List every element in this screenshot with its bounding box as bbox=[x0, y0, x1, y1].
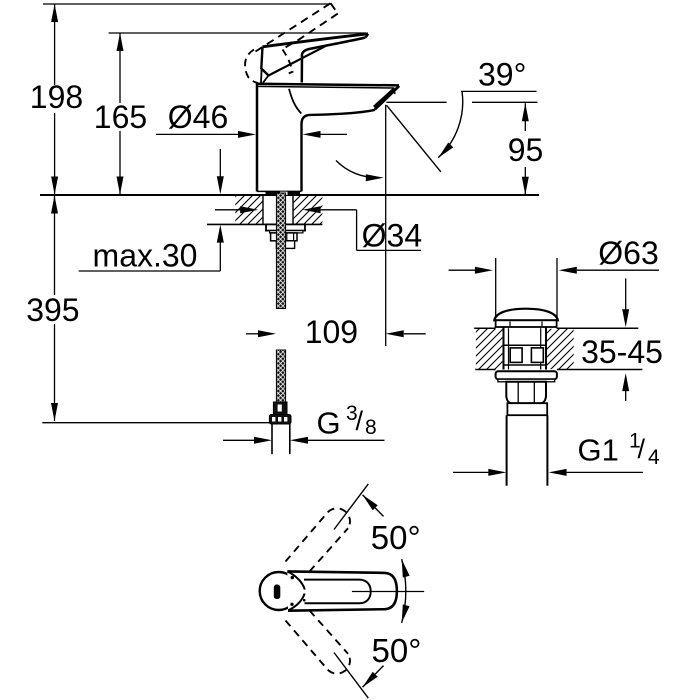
drain deck top line bbox=[474, 327, 638, 329]
top view: lever inner capsule bbox=[304, 580, 371, 604]
hose nipple nut bbox=[269, 415, 291, 425]
top view: dashed handle rotated up bbox=[286, 508, 350, 571]
counter deck hatch left bbox=[235, 196, 263, 224]
handle raised dashed top edge bbox=[256, 3, 331, 51]
dimension 95 bbox=[508, 103, 544, 195]
dimension Ø46 bbox=[156, 99, 347, 138]
svg-text:Ø34: Ø34 bbox=[362, 218, 422, 254]
faucet body left edge bbox=[256, 84, 259, 192]
threaded shank rod upper bbox=[276, 193, 285, 309]
counter deck bottom line bbox=[207, 223, 322, 225]
handle lower facet line bbox=[269, 45, 328, 75]
dimension G 3/8 bbox=[223, 402, 385, 444]
handle cap outline bbox=[261, 47, 268, 76]
drain: cap extension line left bbox=[495, 258, 497, 318]
svg-text:35-45: 35-45 bbox=[581, 334, 663, 370]
dimension 39 degrees bbox=[386, 57, 537, 158]
dimension max.30 bbox=[79, 149, 224, 274]
top view: upper 50 tangent arrow bbox=[363, 495, 384, 517]
top view: junction curve upper bbox=[288, 572, 305, 590]
handle lever underside with neck bbox=[302, 38, 365, 83]
dimension 395 bbox=[26, 195, 79, 421]
faucet spout underside bbox=[302, 110, 376, 192]
top view: centerline bbox=[352, 591, 424, 593]
drain deck hatch left bbox=[476, 329, 504, 369]
svg-text:G1: G1 bbox=[578, 432, 619, 467]
dimension 198 bbox=[30, 4, 83, 195]
drain collar bbox=[507, 403, 547, 415]
drain body window left bbox=[510, 348, 522, 363]
drain deck hatch right bbox=[546, 329, 574, 369]
flange lip bbox=[270, 231, 303, 233]
hose connector bbox=[273, 402, 287, 415]
handle cap foot bbox=[261, 69, 269, 83]
node: countertop line bbox=[40, 194, 539, 196]
counter deck hatch right bbox=[293, 196, 322, 224]
svg-text:G: G bbox=[317, 406, 341, 441]
mounting nut bbox=[271, 233, 297, 241]
drain hex nut bbox=[506, 382, 546, 403]
svg-text:50°: 50° bbox=[371, 519, 421, 556]
handle raised dashed neck bbox=[283, 50, 293, 74]
svg-text:/: / bbox=[638, 434, 646, 464]
faucet spout aerator face bbox=[374, 86, 399, 110]
svg-text:/: / bbox=[356, 406, 364, 436]
nut facet lines bbox=[286, 233, 288, 241]
drain: cap extension line right bbox=[556, 258, 558, 318]
svg-text:109: 109 bbox=[305, 314, 358, 350]
dimension 165 bbox=[94, 33, 147, 195]
drain deck bottom line bbox=[475, 369, 642, 371]
svg-text:39°: 39° bbox=[478, 57, 526, 93]
svg-text:395: 395 bbox=[26, 292, 79, 328]
wire: aerator extension line bbox=[385, 105, 387, 346]
top view: junction curve lower bbox=[288, 594, 304, 611]
handle raised dashed tip bbox=[331, 3, 338, 13]
svg-text:95: 95 bbox=[508, 132, 544, 168]
drain flange bbox=[496, 371, 557, 379]
wire: 395 bottom reference line bbox=[42, 422, 272, 424]
top view: knob circle bbox=[260, 572, 298, 610]
handle lever tip face bbox=[365, 34, 368, 38]
top view: extension line down bbox=[334, 653, 368, 699]
top view: zero arc bbox=[402, 559, 406, 623]
deck hole right edge bbox=[292, 196, 294, 225]
top view: knob slot bbox=[274, 585, 281, 600]
top view: screw dots bbox=[290, 576, 305, 606]
svg-text:Ø63: Ø63 bbox=[598, 235, 658, 271]
top view: dashed handle rotated down bbox=[286, 611, 350, 674]
nut lower step bbox=[276, 241, 294, 249]
faucet spout back edge thin bbox=[257, 86, 394, 88]
handle swing arc bbox=[336, 161, 384, 182]
svg-text:198: 198 bbox=[30, 79, 83, 115]
top view: extension line up bbox=[334, 484, 368, 530]
dimension G1 1/4 bbox=[453, 429, 660, 476]
handle raised dashed cap bbox=[245, 50, 258, 84]
dimension Ø34 with leader bbox=[215, 206, 422, 253]
faucet base line bbox=[257, 190, 302, 192]
threaded shank rod lower bbox=[276, 350, 285, 402]
wire: 198 top extension line bbox=[43, 3, 331, 5]
svg-text:max.30: max.30 bbox=[93, 238, 198, 274]
handle lever solid top edge bbox=[263, 34, 369, 47]
drain flange lip bbox=[498, 379, 555, 382]
top view: zero arc upper arrow bbox=[402, 559, 410, 577]
spray direction line bbox=[387, 105, 441, 172]
dimension 35-45 bbox=[581, 278, 663, 401]
top view: zero arc lower arrow bbox=[402, 604, 410, 622]
handle raised dashed underside bbox=[284, 14, 338, 49]
faucet body inner curve bbox=[289, 89, 301, 114]
drain body sides bbox=[504, 327, 547, 370]
dimension Ø63 bbox=[449, 235, 659, 274]
svg-text:Ø46: Ø46 bbox=[168, 99, 228, 135]
top view: lower 50 tangent arrow bbox=[363, 666, 384, 688]
faucet base gasket bbox=[266, 192, 301, 195]
drain cap dome bbox=[494, 309, 558, 321]
dimension 109 bbox=[246, 314, 426, 350]
svg-text:50°: 50° bbox=[372, 632, 422, 669]
svg-text:8: 8 bbox=[365, 416, 377, 439]
mounting flange bbox=[266, 224, 305, 230]
svg-text:4: 4 bbox=[648, 446, 660, 469]
hose tube bbox=[272, 424, 290, 454]
deck hole left edge bbox=[262, 196, 264, 225]
faucet body top edge thick bbox=[256, 84, 399, 86]
drain body window right bbox=[531, 348, 543, 363]
drain cap rim bbox=[496, 320, 557, 327]
svg-text:165: 165 bbox=[94, 99, 147, 135]
drain tube bbox=[507, 415, 548, 486]
top view: lever outline bbox=[287, 571, 397, 610]
wire: 165 top extension line bbox=[109, 32, 366, 34]
